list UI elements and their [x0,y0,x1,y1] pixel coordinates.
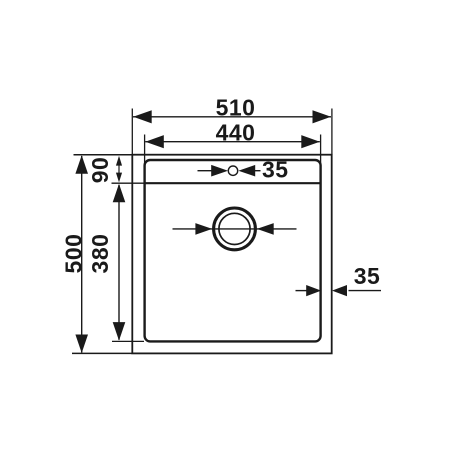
extension line 440 left [144,135,146,168]
arrow 440 right [301,135,320,148]
arrow 510 right [313,110,332,123]
extension line 510 right [331,109,333,155]
svg-text:380: 380 [87,234,113,274]
arrow 90 up [116,156,122,166]
drain dimension line [173,228,297,230]
tap dimension line right [255,170,261,172]
extension line 510 left [131,109,133,155]
svg-text:35: 35 [354,263,381,289]
drain inner circle [219,213,250,244]
arrow tap left [211,165,228,177]
svg-text:35: 35 [262,156,289,182]
tap dimension line left [198,170,213,172]
tap hole circle [228,166,237,175]
arrow tap right [238,165,255,177]
drain outer circle [214,208,256,250]
dimension line 380 [118,185,120,340]
ledge extension line left [112,182,145,184]
dimension line 510 [133,116,331,118]
arrow 500 up [75,155,88,174]
arrow 440 left [145,135,164,148]
extension line bottom-left outer [72,352,132,354]
svg-text:90: 90 [87,157,113,184]
bowl rect [145,160,321,341]
arrow 510 left [133,110,152,123]
svg-text:510: 510 [216,95,256,121]
dimension line 440 [145,141,320,143]
right 35 dimension line left tail [296,290,308,292]
arrow right-35 left [306,285,321,296]
dimension line 500 [81,156,83,353]
svg-text:500: 500 [60,234,86,274]
ledge line [145,182,320,184]
right 35 dimension line right tail [349,290,382,292]
arrow drain right [257,223,274,235]
arrow 90 down [116,173,122,183]
arrow drain left [195,223,212,235]
svg-text:440: 440 [216,119,256,145]
arrow 380 down [113,322,126,341]
dimension 90 small line [118,163,120,176]
extension line 440 right [320,135,322,168]
arrow 380 up [113,184,126,203]
arrow 500 down [75,335,88,354]
arrow right-35 right [332,285,347,296]
extension line top-left outer [74,154,133,156]
outer rim rect [132,155,331,354]
bowl bottom extension line left [112,340,144,342]
